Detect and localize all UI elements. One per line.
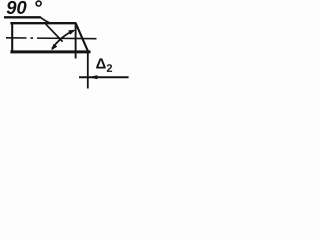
subscript 2 of dimension [107, 64, 112, 72]
chamfered end edge [76, 23, 89, 52]
tool body top edge [10, 22, 76, 24]
digit 9 of angle label [7, 1, 17, 14]
extension line below chamfer end [87, 51, 89, 89]
tool body bottom edge [10, 50, 90, 53]
cutting edge diagonal [46, 24, 63, 41]
label Delta of dimension [96, 58, 105, 68]
dimension line [79, 76, 129, 78]
leader underline under 90 [4, 16, 41, 18]
leader elbow to top edge [41, 17, 51, 23]
degree symbol of angle label [35, 0, 42, 6]
arc arrowhead lower-left [51, 44, 57, 51]
digit 0 of angle label [17, 1, 26, 14]
arc arrowhead upper-right [68, 30, 75, 35]
dimension arrowhead pointing left [89, 75, 98, 79]
background [0, 0, 133, 90]
tool body left edge [11, 22, 13, 53]
original end face vertical line [75, 23, 77, 59]
axis centerline (dash-dot) [6, 37, 97, 40]
angle arc [52, 31, 74, 49]
